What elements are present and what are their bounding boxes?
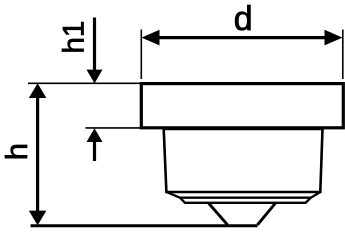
extension line flange bottom level (h1) (86, 127, 142, 129)
svg-text:h1: h1 (58, 21, 91, 54)
lip step 1 (166, 192, 320, 198)
svg-text:h: h (0, 143, 34, 160)
h1 upper arrow shaft (93, 18, 96, 73)
dimension line d (150, 36, 334, 39)
lip step 2 (180, 198, 311, 203)
dimension line h (36, 92, 39, 217)
arrowhead d left (142, 30, 160, 46)
cone left slant (208, 203, 228, 225)
svg-text:d: d (234, 0, 253, 38)
arrowhead h1 lower (pointing up) (87, 128, 103, 142)
baseline (bottom reference line incl. cone flat tip) (31, 224, 258, 227)
arrowhead d right (325, 30, 343, 46)
h1 lower arrow shaft (93, 141, 96, 161)
extension line flange top level (28, 82, 140, 84)
extension line d right (342, 30, 344, 80)
cone right slant (258, 203, 277, 225)
body (tapered nozzle body outline) (164, 129, 323, 192)
arrowhead h1 upper (pointing down) (87, 70, 103, 84)
arrowhead h top (29, 83, 47, 98)
flange (top plate outline) (141, 84, 343, 128)
arrowhead h bottom (29, 211, 47, 226)
extension line d left (140, 30, 142, 80)
